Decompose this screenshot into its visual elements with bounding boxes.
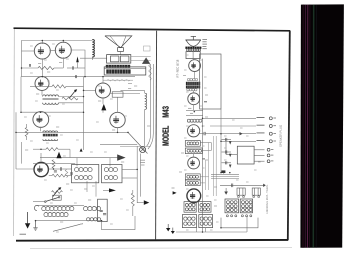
wire row163 — [33, 163, 75, 165]
label v10 — [202, 102, 207, 159]
choke winding bar A — [186, 82, 200, 85]
uniA loops — [227, 201, 238, 212]
choke winding bar B — [186, 85, 200, 88]
L4b loops — [187, 181, 199, 184]
tube V8 rectifier — [189, 60, 201, 72]
tube V5 — [96, 83, 111, 98]
film stripe magenta 1 — [304, 5, 306, 248]
wire right riser — [83, 77, 85, 150]
junction dots left panel — [15, 40, 138, 222]
stamp RT-REC 40-16 — [176, 60, 178, 77]
L4a loops — [187, 175, 199, 178]
antenna coil L2 row 2 — [44, 213, 68, 217]
label u3 — [181, 152, 184, 154]
transformer T2 core — [43, 134, 58, 137]
wire row110 — [186, 108, 203, 110]
trimmer box — [98, 199, 108, 221]
wire if1 bottom — [87, 181, 96, 197]
wire net bottom — [221, 218, 258, 228]
tube V11 — [188, 157, 200, 169]
label row1 — [257, 117, 265, 119]
plug wires — [226, 141, 265, 161]
label t0 — [38, 63, 41, 65]
field coil cell 2 — [120, 56, 128, 62]
terminal TB4 — [269, 140, 276, 143]
wire v8 bottom — [194, 72, 196, 79]
film stripe magenta 2 — [306, 5, 308, 248]
potentiometer P2 — [52, 191, 63, 194]
T5 center line — [192, 52, 194, 59]
speaker SP1 cone — [105, 36, 132, 48]
label t7 — [25, 149, 28, 151]
speaker SP1 neck — [118, 48, 124, 52]
wire v5 left — [84, 89, 96, 91]
terminal TB1 — [269, 117, 276, 120]
transformer T2 primary — [43, 131, 58, 132]
ground GND3 — [171, 228, 175, 234]
IF transformer box 2 — [102, 165, 123, 183]
wire bus157 — [40, 157, 118, 159]
film stripe gray — [315, 5, 317, 248]
wire row220 — [36, 220, 98, 222]
resistor R5 — [149, 65, 152, 81]
oscillator padder box — [53, 195, 62, 200]
wire V1 drop — [41, 58, 43, 76]
label pl1 — [141, 160, 146, 165]
potentiometer P1 wiper — [69, 89, 77, 98]
capacitor C2 — [76, 75, 77, 78]
arrow A1 — [76, 56, 79, 62]
uni trans box A — [225, 199, 239, 213]
grid cap box — [112, 92, 123, 97]
speaker plug text — [280, 125, 282, 147]
ground arrow net — [224, 188, 228, 195]
tube V10 — [188, 125, 200, 137]
film stripe green — [312, 5, 314, 248]
speaker SP1 inner — [110, 36, 126, 48]
coil L7 — [87, 218, 101, 221]
pilot lamp PL1 — [140, 147, 146, 153]
arrow A7 — [80, 148, 83, 151]
wire r9 — [49, 175, 72, 177]
field coil cell 1 — [111, 56, 119, 62]
terminal TB6 — [267, 154, 273, 157]
panel divider — [156, 31, 157, 240]
output transformer box — [104, 67, 146, 75]
wire T1 right bot — [59, 102, 84, 104]
label l5 — [128, 84, 137, 89]
coil box BA — [184, 202, 196, 213]
arrow A3 — [101, 104, 106, 111]
label t3 — [98, 100, 101, 102]
IF T3 winding a — [75, 168, 93, 172]
wire chassis drop — [220, 109, 222, 173]
terminal row B — [241, 215, 251, 217]
transformer T1 primary — [43, 95, 59, 97]
label t2 — [47, 71, 50, 73]
resistor R16 — [65, 170, 68, 178]
ground GND1 — [33, 221, 37, 231]
label t9 — [84, 188, 87, 190]
wire R1 to V2 — [54, 57, 63, 68]
voice coil loops — [187, 49, 201, 51]
wire r8 — [132, 190, 134, 216]
wire r2 right — [66, 85, 84, 87]
wire left edge riser — [15, 112, 17, 169]
wire sp1 drop — [120, 51, 122, 54]
coil L3 row — [84, 207, 101, 211]
transformer T1 secondary — [43, 103, 59, 105]
wire v9 top — [193, 90, 195, 93]
tube V6 — [110, 112, 125, 127]
wire sock row 1 — [203, 117, 257, 119]
title M43 — [162, 106, 168, 117]
wire row58 — [80, 57, 107, 59]
tube V9 — [188, 93, 200, 105]
label u1 — [205, 94, 208, 96]
wire under box — [103, 79, 133, 81]
footer label — [20, 233, 27, 235]
output transformer box T5 — [186, 52, 200, 59]
wire long row132 — [16, 131, 128, 133]
wire v5 right — [111, 93, 141, 95]
tube V7 — [34, 162, 48, 176]
wire row149 — [33, 148, 46, 150]
film strip band — [300, 4, 344, 247]
PA loops — [184, 217, 195, 225]
inductor L5 — [145, 93, 147, 109]
capacitor C10 — [30, 64, 31, 67]
wire l1 bottom — [91, 57, 93, 61]
wire V2 stem — [62, 41, 64, 44]
wire grid row — [22, 67, 39, 69]
wire top feed — [22, 41, 93, 78]
resistor R6 — [46, 148, 58, 151]
label u4 — [179, 171, 182, 173]
wire sock row 2 — [210, 125, 256, 127]
speaker SP2 stem — [191, 36, 196, 40]
pot P2 arrow — [53, 187, 62, 196]
label u6 — [214, 186, 217, 188]
wire v11 top — [193, 154, 195, 158]
speaker SP2 cone — [186, 40, 200, 46]
wire V2 to right — [71, 50, 85, 77]
wire c5 — [200, 133, 222, 135]
inductor L1 antenna choke — [92, 40, 94, 58]
coil box BB — [199, 202, 211, 213]
relay cluster B — [252, 188, 260, 198]
arrow A4 — [56, 152, 61, 158]
antenna coil L2 row 1 — [42, 207, 74, 211]
capacitor C9 — [70, 173, 73, 174]
IF transformer box 1 — [72, 165, 99, 183]
winding bar W2 — [106, 69, 130, 73]
resistor R2 — [52, 85, 66, 88]
IF T4 winding b — [104, 176, 117, 180]
wire V1 stem — [41, 41, 43, 45]
T6 right wires — [200, 143, 211, 151]
arrow A8 — [117, 154, 125, 160]
wire diag — [128, 132, 148, 153]
terminal TB7 — [267, 160, 273, 163]
capacitor C6 — [222, 138, 232, 145]
wire into V7 — [16, 168, 33, 170]
winding bar W1 — [106, 65, 130, 68]
wire bottom bus — [176, 231, 247, 233]
junction blob — [221, 170, 225, 173]
speaker SP2 flange — [185, 39, 201, 41]
ground GND2 — [166, 224, 170, 231]
wire v5 bottom — [102, 98, 104, 113]
transformer T1 core — [43, 98, 59, 99]
wire row112 — [21, 111, 84, 113]
label u0 — [183, 75, 186, 77]
resistor R9 — [52, 174, 65, 177]
label row2 — [257, 124, 265, 126]
switch S1 — [45, 196, 60, 202]
arrow A2 — [142, 57, 150, 64]
wire row115 — [186, 113, 203, 115]
wire V4 drop — [40, 127, 42, 131]
wire left riser — [20, 77, 22, 113]
wire row205 — [36, 204, 85, 206]
BB loops — [200, 204, 210, 211]
resistor R1 — [38, 66, 54, 69]
label t12 — [60, 221, 63, 223]
wire r3 — [26, 124, 28, 140]
page border top — [14, 28, 291, 31]
component value labels right — [184, 55, 261, 230]
choke loops top — [187, 78, 197, 80]
wire into V1 — [22, 50, 36, 52]
IF box T6b — [185, 148, 202, 154]
capacitor C7 — [222, 150, 232, 157]
choke loops bottom — [187, 89, 197, 91]
right risers — [200, 143, 208, 191]
wire left loop — [21, 142, 23, 164]
label row4 — [257, 140, 265, 142]
wire s1 — [33, 201, 45, 203]
paper shadow edge — [30, 248, 292, 249]
page border bottom — [16, 239, 288, 242]
capacitor C5 — [204, 132, 205, 135]
PB loops — [200, 217, 211, 225]
resistor R7 — [52, 160, 55, 168]
T6 winding b — [187, 149, 202, 152]
page border right — [288, 31, 290, 240]
tube V2 — [55, 42, 71, 58]
wire drops to IF — [70, 149, 110, 166]
wire a5 — [103, 189, 109, 191]
wire c3 — [48, 168, 71, 170]
wire l5 bottom — [144, 109, 146, 146]
tube V1 — [34, 43, 50, 59]
wire c1 — [67, 67, 85, 69]
wire v6 top — [117, 97, 119, 112]
wire rails — [211, 174, 239, 178]
trimmer box top — [144, 46, 151, 51]
wire if right top — [122, 168, 137, 170]
label t6 — [56, 126, 59, 128]
label t11 — [147, 125, 150, 127]
wire row146 — [100, 145, 151, 147]
label t10 — [121, 161, 124, 163]
label u5 — [205, 159, 208, 161]
wire bus risers — [197, 216, 248, 232]
transformer T2 secondary — [43, 139, 58, 140]
label t5 — [36, 93, 39, 95]
film stripe dark red — [309, 5, 311, 248]
junction dots right panel — [194, 111, 231, 233]
universal text — [266, 185, 268, 214]
field coil box — [107, 55, 131, 64]
capacitor C1 — [72, 66, 73, 69]
label t8 — [66, 183, 69, 185]
speaker field winding bar — [185, 47, 201, 49]
wire sock row 4 — [221, 140, 256, 142]
capacitor C8 — [222, 161, 232, 168]
IF T3 winding b — [75, 176, 93, 180]
tube V4 — [33, 112, 49, 128]
power transformer box PA — [182, 215, 196, 228]
plug box — [237, 146, 254, 164]
arrow A5 — [109, 188, 116, 192]
wire V3 stem — [41, 90, 43, 95]
antenna ANT — [25, 212, 30, 229]
wire v7 top — [40, 153, 42, 161]
wire riser137 — [136, 146, 138, 203]
wire long riser 202 — [202, 59, 204, 232]
wire v6 bottom — [117, 128, 119, 133]
page border left (faint) — [13, 29, 16, 236]
T6 winding a — [187, 142, 199, 145]
tube V12 output — [187, 189, 201, 203]
BA loops — [185, 204, 195, 211]
wire l5 top — [121, 91, 145, 94]
wire v9 bottom — [193, 105, 195, 111]
capacitor C4 — [100, 210, 107, 214]
label row3 — [257, 132, 265, 134]
resistor R3 — [25, 128, 28, 137]
capacitor C3 — [54, 167, 62, 172]
wire diag bottom — [53, 224, 83, 232]
label u7 — [214, 205, 217, 207]
chassis box — [200, 54, 221, 109]
terminal TB3 — [269, 132, 276, 135]
wire a6 — [137, 202, 144, 204]
label t4 — [112, 129, 115, 131]
riser pair left — [214, 136, 217, 196]
component value labels left — [24, 44, 129, 232]
wire long under tubes — [22, 76, 136, 78]
wire V1-V2 link — [50, 49, 57, 52]
resistor R4 — [62, 97, 78, 100]
wire field to rails bot — [131, 59, 151, 61]
wire if right bot — [122, 177, 137, 179]
rail pair — [147, 64, 154, 149]
wire riser140 — [139, 154, 141, 197]
tube V3 — [35, 77, 49, 91]
wire v8 top — [192, 59, 194, 60]
label u2 — [205, 116, 208, 118]
IF box T6a — [185, 141, 200, 147]
uni trans box B — [240, 199, 252, 213]
resistor R8 — [131, 193, 134, 206]
wire r6 right — [58, 148, 70, 150]
wire field to rails top — [131, 56, 151, 58]
relay cluster A — [237, 188, 245, 198]
arrow A6 — [144, 200, 150, 205]
film stripe maroon — [302, 5, 304, 248]
wire T1 right top — [59, 96, 84, 98]
IF T4 winding a — [104, 168, 117, 172]
title MODEL — [162, 126, 168, 146]
wire net bus — [220, 184, 266, 188]
terminal TB2 — [269, 125, 276, 128]
coil row L6 — [187, 119, 202, 122]
label t1 — [59, 62, 62, 64]
terminal TB5 — [267, 148, 273, 151]
label t5 — [202, 40, 207, 49]
uniB loops — [242, 201, 253, 212]
terminal row A — [226, 215, 236, 217]
wire row86 — [30, 85, 52, 87]
antenna coil hook — [34, 205, 39, 210]
wire v5 top — [102, 77, 104, 83]
wire bottom right — [102, 216, 136, 230]
B+ arrow — [172, 188, 177, 195]
power transformer box PB — [199, 215, 213, 228]
label t13 — [88, 199, 91, 201]
coil box L4a — [185, 174, 200, 180]
wire sock row 3 — [221, 132, 256, 135]
coil box L4b — [185, 180, 200, 186]
wire a1 — [77, 62, 79, 68]
